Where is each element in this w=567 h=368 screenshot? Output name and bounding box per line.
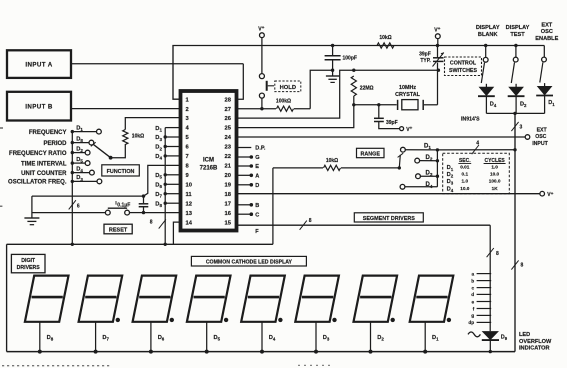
svg-text:8: 8 — [521, 263, 524, 269]
svg-text:B: B — [255, 203, 259, 209]
svg-text:g: g — [471, 314, 474, 319]
svg-text:D8: D8 — [47, 335, 54, 342]
svg-text:dp: dp — [468, 320, 474, 326]
svg-text:OSCILLATOR FREQ.: OSCILLATOR FREQ. — [8, 180, 67, 186]
svg-text:0.01: 0.01 — [460, 165, 470, 170]
svg-text:8: 8 — [496, 251, 499, 257]
svg-text:TYP.: TYP. — [420, 58, 431, 64]
svg-text:A: A — [255, 173, 259, 179]
svg-text:16: 16 — [225, 211, 232, 217]
svg-text:17: 17 — [225, 201, 231, 207]
svg-text:D2: D2 — [155, 145, 162, 152]
svg-text:e: e — [472, 300, 475, 305]
svg-text:RANGE: RANGE — [360, 152, 380, 158]
svg-text:INPUT B: INPUT B — [25, 104, 53, 111]
svg-text:C: C — [255, 212, 259, 218]
svg-text:22: 22 — [225, 154, 231, 160]
svg-text:10.0: 10.0 — [490, 172, 500, 177]
svg-text:D2: D2 — [447, 172, 454, 179]
svg-text:19: 19 — [225, 182, 232, 188]
svg-text:D3: D3 — [76, 175, 83, 182]
svg-text:20: 20 — [225, 173, 231, 179]
svg-text:D2: D2 — [520, 102, 527, 109]
svg-text:24: 24 — [225, 135, 232, 141]
svg-text:D4: D4 — [490, 102, 497, 109]
svg-text:INPUT: INPUT — [532, 141, 548, 147]
svg-text:D2: D2 — [377, 335, 384, 342]
svg-text:12: 12 — [186, 201, 192, 207]
svg-text:D1: D1 — [447, 165, 454, 172]
svg-text:CRYSTAL: CRYSTAL — [395, 92, 421, 98]
svg-text:10.0: 10.0 — [460, 186, 470, 191]
svg-text:14: 14 — [186, 220, 193, 226]
svg-text:d: d — [471, 292, 474, 298]
svg-text:D1: D1 — [432, 335, 439, 342]
svg-text:D3: D3 — [155, 135, 162, 142]
svg-text:D1: D1 — [76, 125, 83, 132]
svg-text:D3: D3 — [323, 335, 330, 342]
svg-text:CONTROL: CONTROL — [450, 61, 477, 67]
svg-text:INPUT A: INPUT A — [25, 62, 52, 69]
svg-text:IN914'S: IN914'S — [461, 116, 480, 122]
svg-text:D1: D1 — [155, 126, 162, 133]
svg-text:22MΩ: 22MΩ — [360, 85, 374, 91]
svg-text:EXT: EXT — [541, 23, 552, 29]
svg-text:D1: D1 — [424, 143, 431, 150]
svg-text:TIME INTERVAL: TIME INTERVAL — [21, 161, 67, 167]
svg-text:D3: D3 — [447, 179, 454, 186]
svg-text:D9: D9 — [501, 335, 508, 342]
svg-text:D1: D1 — [548, 100, 555, 107]
svg-text:DISPLAY: DISPLAY — [506, 25, 530, 31]
svg-text:10kΩ: 10kΩ — [379, 35, 391, 41]
svg-text:6: 6 — [77, 203, 80, 209]
svg-text:DRIVERS: DRIVERS — [17, 265, 41, 271]
svg-text:D3: D3 — [426, 171, 433, 178]
svg-text:HOLD: HOLD — [280, 85, 296, 91]
svg-text:D4: D4 — [426, 182, 433, 189]
svg-text:D6: D6 — [155, 183, 162, 190]
svg-text:b: b — [471, 278, 474, 284]
svg-text:a: a — [472, 272, 475, 277]
svg-text:0.1μF: 0.1μF — [117, 202, 130, 208]
svg-text:10MHz: 10MHz — [399, 85, 416, 91]
svg-text:10kΩ: 10kΩ — [132, 133, 144, 139]
svg-text:2: 2 — [186, 107, 189, 113]
svg-text:27: 27 — [225, 107, 231, 113]
svg-text:COMMON CATHODE LED DISPLAY: COMMON CATHODE LED DISPLAY — [206, 260, 293, 266]
svg-text:1K: 1K — [492, 186, 499, 191]
svg-text:11: 11 — [186, 192, 193, 198]
svg-text:D4: D4 — [447, 187, 454, 194]
svg-text:4: 4 — [476, 141, 479, 147]
svg-text:39pF: 39pF — [386, 120, 398, 126]
svg-text:FREQUENCY RATIO: FREQUENCY RATIO — [9, 151, 67, 157]
svg-text:100kΩ: 100kΩ — [276, 98, 291, 104]
svg-text:D2: D2 — [426, 155, 433, 162]
svg-text:13: 13 — [186, 211, 193, 217]
svg-text:FREQUENCY: FREQUENCY — [29, 130, 67, 136]
svg-text:INDICATOR: INDICATOR — [519, 346, 550, 352]
svg-text:FUNCTION: FUNCTION — [107, 169, 135, 175]
svg-text:OVERFLOW: OVERFLOW — [519, 339, 552, 345]
svg-text:1.0: 1.0 — [491, 165, 498, 170]
svg-text:SWITCHES: SWITCHES — [449, 68, 477, 74]
svg-text:BLANK: BLANK — [478, 32, 498, 38]
svg-text:D8: D8 — [155, 201, 162, 208]
svg-text:D7: D7 — [102, 335, 109, 342]
svg-text:F: F — [255, 229, 259, 235]
svg-text:OSC: OSC — [541, 29, 553, 35]
svg-text:D8: D8 — [76, 136, 83, 143]
svg-text:21: 21 — [225, 164, 232, 170]
svg-text:D: D — [255, 183, 259, 189]
svg-text:G: G — [255, 155, 259, 161]
svg-text:8: 8 — [309, 218, 312, 224]
svg-text:LED: LED — [519, 332, 530, 338]
svg-text:18: 18 — [225, 192, 232, 198]
svg-text:3: 3 — [520, 124, 523, 130]
svg-text:OSC: OSC — [535, 134, 546, 140]
svg-text:26: 26 — [225, 116, 232, 122]
svg-text:SEGMENT DRIVERS: SEGMENT DRIVERS — [363, 216, 416, 222]
svg-text:100.0: 100.0 — [489, 178, 501, 183]
svg-text:D4: D4 — [76, 166, 83, 173]
svg-text:ENABLE: ENABLE — [535, 36, 558, 42]
svg-text:7: 7 — [186, 154, 189, 160]
svg-text:D4: D4 — [269, 335, 276, 342]
svg-text:D5: D5 — [155, 173, 162, 180]
svg-text:D5: D5 — [76, 157, 83, 164]
svg-text:RESET: RESET — [109, 228, 128, 234]
svg-text:100pF: 100pF — [343, 55, 357, 61]
svg-text:28: 28 — [225, 97, 232, 103]
svg-text:D4: D4 — [155, 154, 162, 161]
svg-text:D6: D6 — [158, 335, 165, 342]
svg-text:D7: D7 — [155, 192, 162, 199]
svg-text:8: 8 — [150, 220, 153, 226]
svg-text:39pF: 39pF — [419, 52, 431, 58]
svg-text:D5: D5 — [214, 335, 221, 342]
svg-text:0.1: 0.1 — [462, 172, 469, 177]
svg-text:D.P.: D.P. — [255, 146, 266, 152]
svg-text:25: 25 — [225, 126, 232, 132]
svg-text:7216B: 7216B — [200, 166, 218, 172]
svg-text:UNIT COUNTER: UNIT COUNTER — [21, 171, 67, 177]
svg-text:23: 23 — [225, 145, 232, 151]
svg-text:10kΩ: 10kΩ — [326, 158, 338, 164]
svg-text:EXT: EXT — [537, 128, 548, 134]
svg-text:DIGIT: DIGIT — [21, 258, 36, 264]
svg-text:ICM: ICM — [203, 158, 214, 164]
svg-text:15: 15 — [225, 220, 232, 226]
svg-text:DISPLAY: DISPLAY — [476, 25, 500, 31]
svg-text:1.0: 1.0 — [462, 178, 469, 183]
svg-text:E: E — [255, 164, 259, 170]
svg-text:PERIOD: PERIOD — [43, 141, 67, 147]
svg-text:c: c — [472, 286, 475, 291]
svg-text:D2: D2 — [76, 146, 83, 153]
svg-text:10: 10 — [186, 182, 192, 188]
svg-text:TEST: TEST — [510, 32, 525, 38]
